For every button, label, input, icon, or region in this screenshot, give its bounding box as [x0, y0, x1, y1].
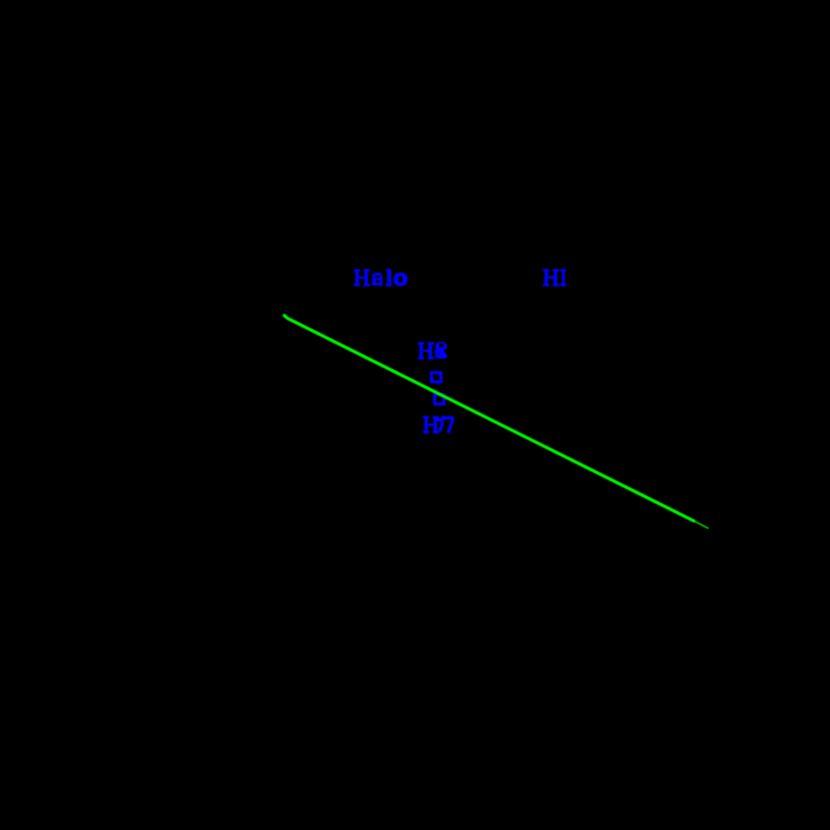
marker square 1 — [432, 373, 441, 382]
node H7 — [423, 416, 454, 433]
node Halo — [354, 269, 407, 286]
node HI — [543, 269, 566, 286]
node H8 — [418, 342, 448, 359]
wire: green model line — [283, 315, 708, 529]
wire: thin tail of line — [695, 522, 709, 529]
marker square 2 — [435, 395, 444, 404]
